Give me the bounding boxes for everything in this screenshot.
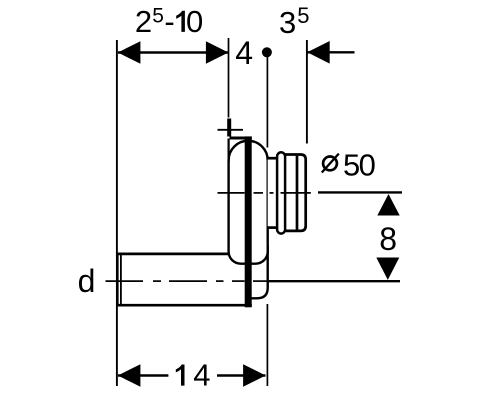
svg-text:d: d	[78, 263, 96, 299]
svg-text:4: 4	[193, 358, 210, 393]
svg-text:25-0: 25-0	[135, 4, 203, 39]
svg-text:8: 8	[379, 221, 397, 257]
svg-text:4: 4	[235, 35, 253, 71]
svg-text:50: 50	[343, 148, 376, 183]
